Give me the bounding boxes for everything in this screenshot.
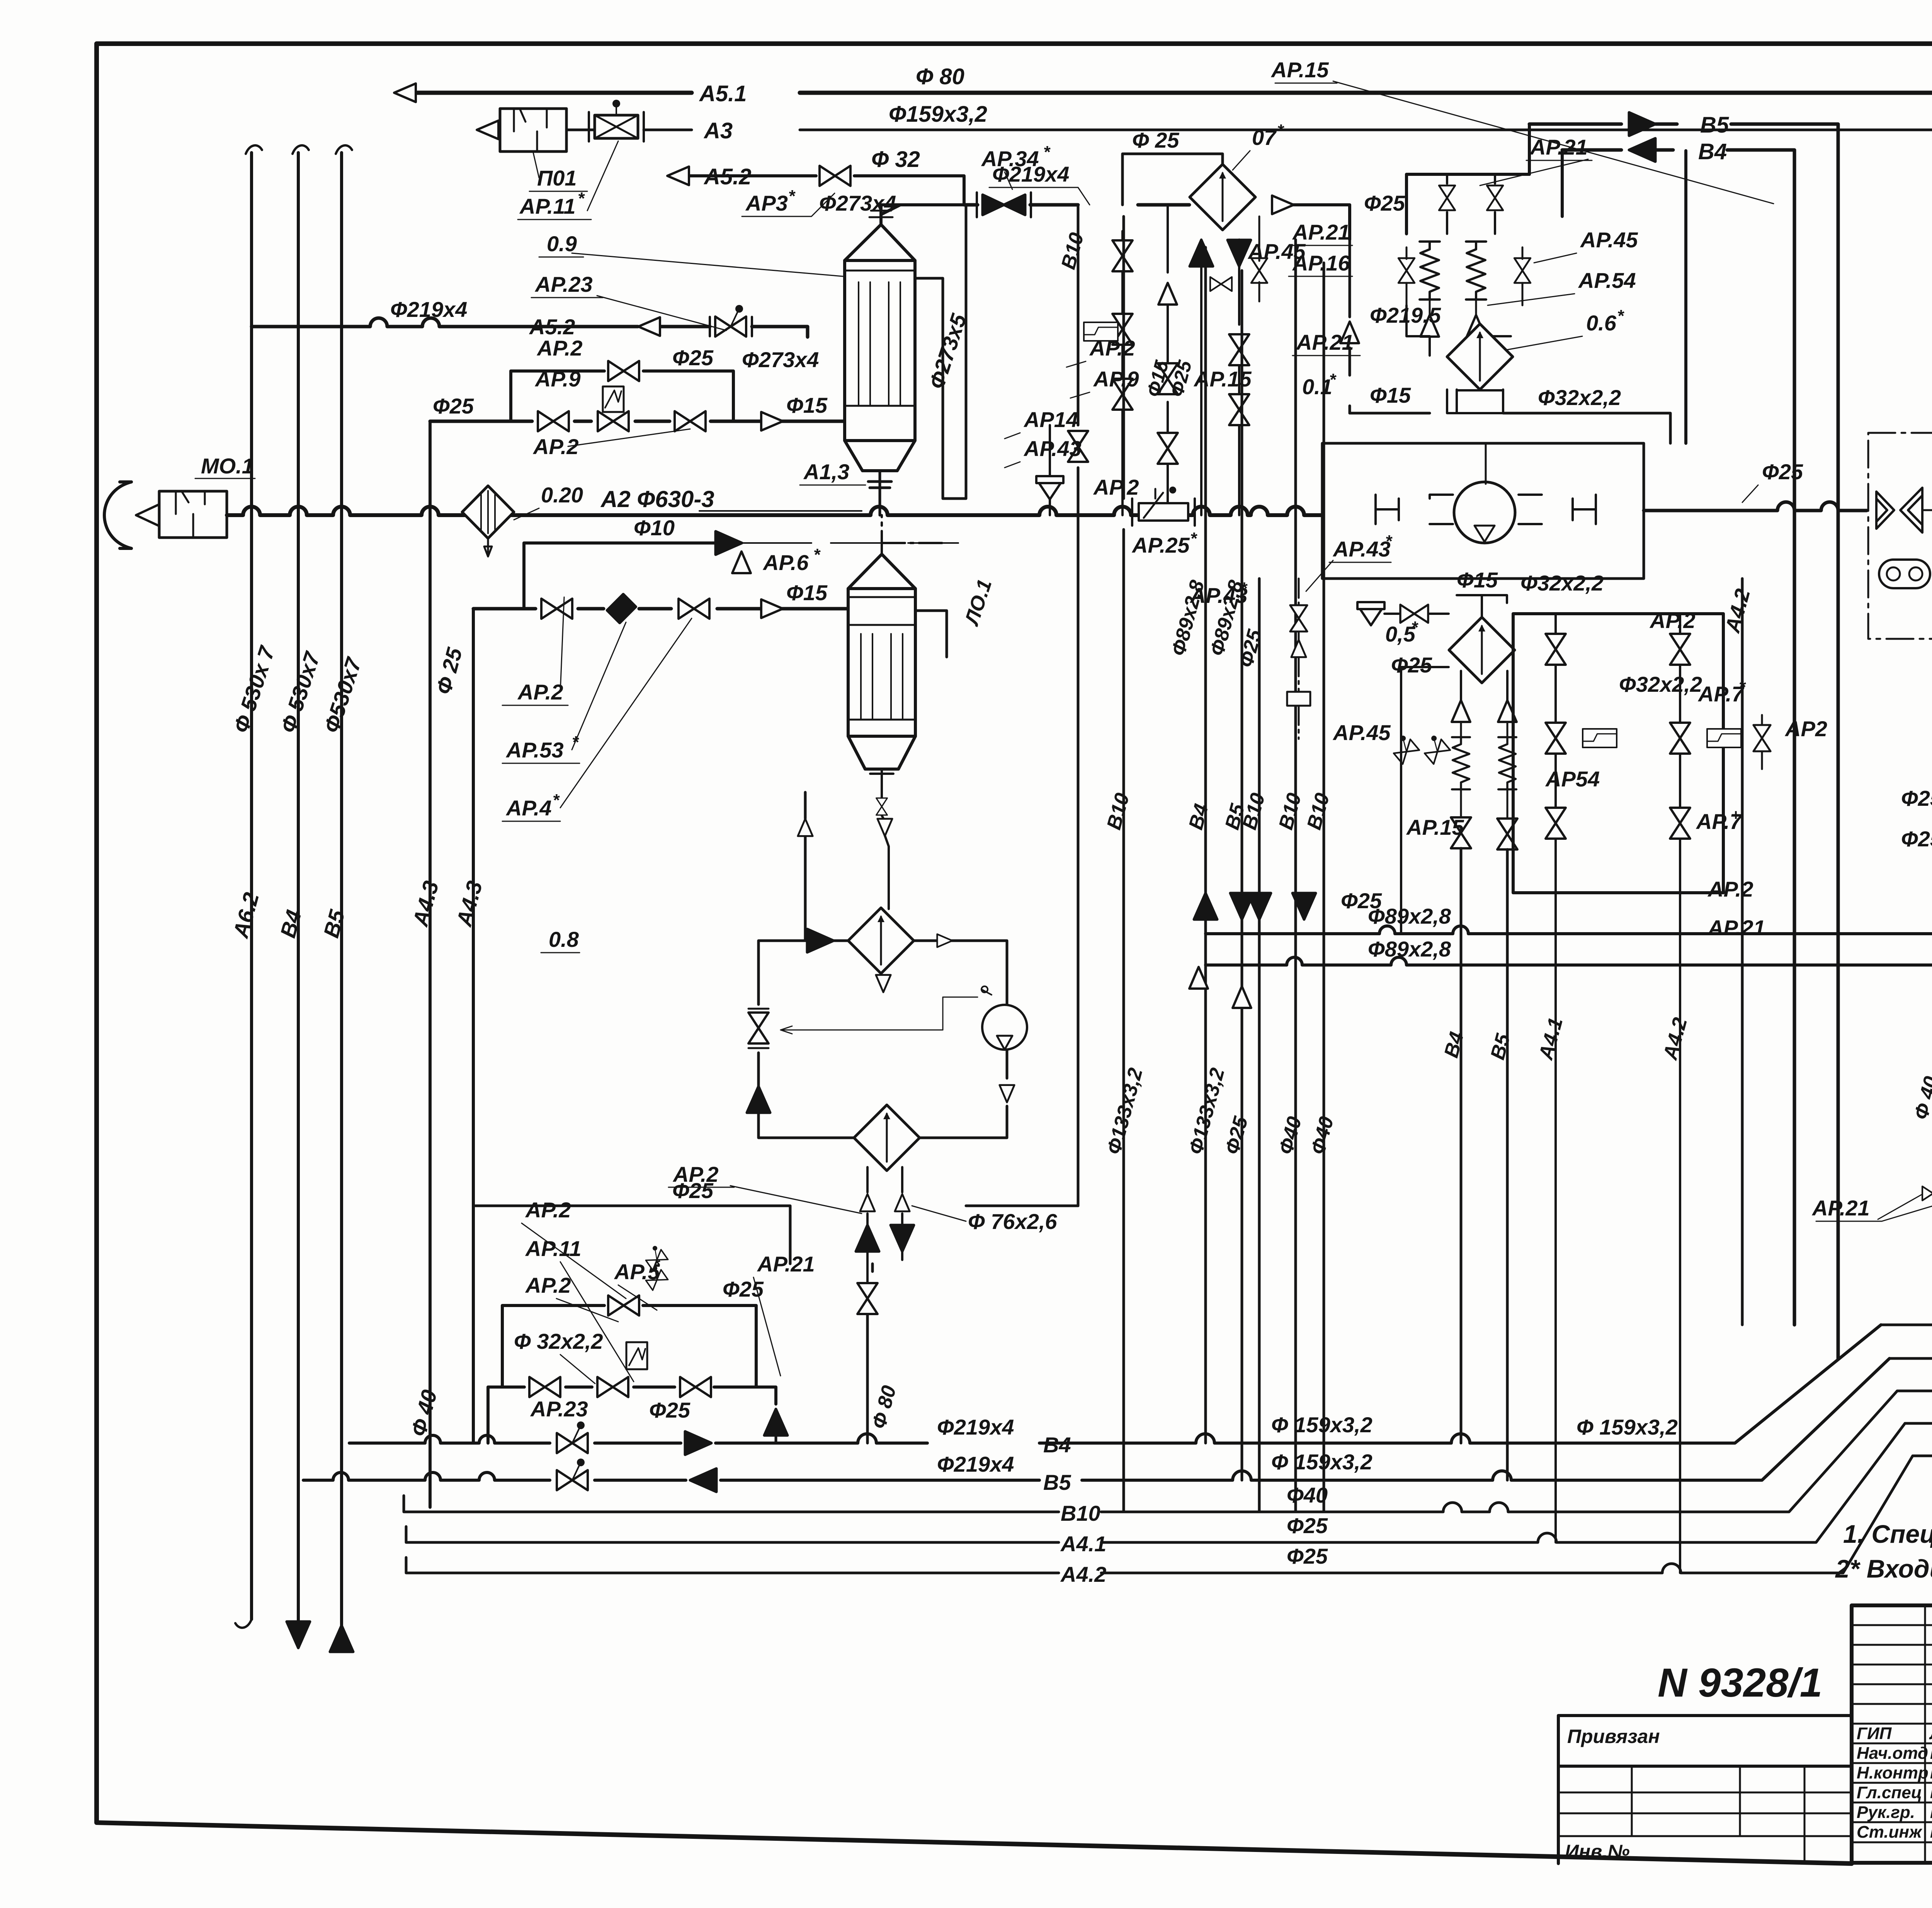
right column small valves: [1753, 725, 1770, 751]
svg-text:Гл.спец: Гл.спец: [1857, 1783, 1922, 1802]
svg-text:*: *: [788, 187, 796, 206]
spring safety bank: [1406, 124, 1529, 234]
svg-text:АР.53: АР.53: [505, 738, 564, 762]
filter MO.1 box: [159, 491, 227, 538]
manifold line 2 to vessel 0.8: [473, 607, 848, 611]
filter 0.20 diamond: [462, 486, 514, 538]
signature rows: [1857, 1724, 1932, 1842]
line A1.2 from vessel 0.9 top: [881, 205, 964, 225]
svg-text:Ф25: Ф25: [672, 1178, 714, 1203]
B10 vertical from A1.2: [1077, 205, 1080, 1206]
signature table grid: [1852, 1605, 1932, 1863]
svg-text:АР.21: АР.21: [1707, 916, 1765, 940]
bypass line F25 upper: [511, 371, 733, 421]
svg-text:АР.6: АР.6: [762, 550, 809, 575]
heat exchanger 0.6: [1447, 324, 1513, 390]
svg-text:АР.16: АР.16: [1292, 251, 1350, 275]
svg-text:Ф15: Ф15: [786, 580, 828, 605]
svg-text:Ф 80: Ф 80: [916, 64, 964, 89]
svg-text:Ф 159х3,2: Ф 159х3,2: [1271, 1450, 1372, 1474]
svg-text:Ф219х4: Ф219х4: [937, 1452, 1014, 1476]
svg-text:АР.43: АР.43: [1189, 583, 1248, 608]
svg-text:Григорьян: Григорьян: [1930, 1803, 1932, 1822]
AP.43 dash-dot line: [1298, 579, 1300, 739]
vessel 0.9 right side pipe: [915, 205, 966, 499]
svg-text:АР.54: АР.54: [1578, 268, 1636, 293]
privyazan box: [1558, 1716, 1850, 1864]
small AP.5 valves: [642, 1264, 668, 1290]
0.5 outlet legs: [1461, 671, 1507, 702]
black valve AP.34: [983, 195, 1025, 215]
air dryer vessel 0.8: [848, 554, 915, 769]
svg-text:АР.2: АР.2: [1089, 336, 1135, 360]
AP.43 funnel separator: [1036, 476, 1063, 499]
heat exchanger 0.5 diamond: [1449, 617, 1515, 683]
svg-text:+: +: [1731, 807, 1740, 824]
label stack P01 AP.11 0.9 AP.23: [519, 166, 593, 296]
bottom line A4.1: [406, 1423, 1905, 1542]
svg-text:Н.контр: Н.контр: [1857, 1763, 1929, 1782]
svg-text:АР.2: АР.2: [517, 680, 563, 704]
svg-text:АР.43: АР.43: [1023, 436, 1082, 461]
svg-text:АР.2: АР.2: [1093, 475, 1139, 499]
actuator box valve left: [1084, 322, 1118, 341]
svg-text:А5.1: А5.1: [699, 81, 747, 106]
svg-text:0.6: 0.6: [1586, 311, 1617, 335]
valve: [675, 411, 706, 431]
svg-text:Преснов: Преснов: [1930, 1783, 1932, 1802]
blower circle: [982, 1005, 1027, 1050]
svg-text:В4: В4: [1698, 139, 1727, 164]
svg-text:Ф219х4: Ф219х4: [992, 162, 1069, 186]
main air line A2: [227, 507, 1322, 515]
black triangles pair: [1190, 240, 1213, 266]
svg-text:0.9: 0.9: [547, 231, 577, 256]
labels AP group: [505, 680, 579, 951]
labels left of center: [1023, 336, 1252, 461]
loop valve: [748, 1013, 769, 1043]
svg-text:АР.11: АР.11: [525, 1236, 581, 1261]
svg-text:АР54: АР54: [1545, 767, 1600, 791]
F89x2.8 headers: [1206, 926, 1932, 934]
svg-text:Ф273х4: Ф273х4: [742, 347, 819, 372]
svg-text:Ф15: Ф15: [786, 393, 828, 417]
A4.2 vertical right of compressor: [1741, 579, 1744, 1325]
svg-text:Ф40: Ф40: [1287, 1483, 1328, 1507]
black filter element: [607, 594, 636, 623]
title block outer: [1852, 1605, 1932, 1863]
svg-text:АР.11: АР.11: [519, 194, 575, 218]
svg-text:ГИП: ГИП: [1857, 1724, 1892, 1743]
svg-text:А5.2: А5.2: [703, 164, 752, 189]
svg-text:Ф25: Ф25: [672, 346, 714, 370]
springs AP.54 pair: [1452, 737, 1470, 790]
manifold line 1 to vessel 0.9: [430, 420, 845, 423]
drive unit box 0.2 dash-dot: [1868, 433, 1932, 639]
svg-text:Инв.№: Инв.№: [1565, 1841, 1630, 1862]
svg-text:АР.43: АР.43: [1332, 537, 1391, 561]
svg-text:Ф32х2,2: Ф32х2,2: [1538, 385, 1621, 410]
vertical feeders to bottom: [1122, 216, 1125, 1512]
AP.45 dot valves pair: [1388, 733, 1419, 764]
bottom line B5: [303, 1358, 1889, 1480]
bottom line A4.2: [406, 1456, 1913, 1573]
control valve with box: [598, 411, 629, 431]
svg-text:*: *: [1043, 143, 1051, 162]
svg-text:0.20: 0.20: [541, 483, 583, 507]
svg-text:2* Входит в комплект постав: 2* Входит в комплект поставки оборудован…: [1835, 1554, 1932, 1583]
rotated labels on feeders: [1103, 578, 1338, 1157]
svg-text:*: *: [1411, 618, 1418, 637]
crank oval: [1879, 560, 1930, 588]
svg-text:Ф219х4: Ф219х4: [390, 297, 467, 322]
svg-text:В5: В5: [1700, 112, 1729, 138]
svg-text:Ф 32х2,2: Ф 32х2,2: [514, 1329, 603, 1353]
loop black arrow: [747, 1086, 770, 1113]
manifold frame box: [1513, 614, 1723, 893]
svg-text:АР2: АР2: [1784, 717, 1827, 741]
air dryer vessel 0.9: [845, 225, 915, 471]
svg-text:Ф159х3,2: Ф159х3,2: [889, 102, 987, 127]
separator cluster 0.5 below compressor: [1357, 602, 1384, 625]
svg-text:N 9328/1: N 9328/1: [1658, 1660, 1822, 1705]
svg-text:Ф25: Ф25: [1287, 1513, 1328, 1538]
svg-text:*: *: [1617, 306, 1624, 325]
staircase band to right: [1881, 1325, 1932, 1480]
svg-text:АР.15: АР.15: [1270, 58, 1329, 82]
valve column A4.2: [1679, 614, 1681, 1573]
valve with cross box P01: [595, 115, 638, 138]
line F219x4 to dryers (A5.2): [252, 318, 638, 327]
svg-text:Ф89х2,8: Ф89х2,8: [1368, 937, 1451, 961]
svg-text:Привязан: Привязан: [1567, 1726, 1660, 1747]
svg-text:Ф 25: Ф 25: [1132, 128, 1179, 152]
cooler outlet legs: [867, 1167, 902, 1314]
bottom line B10: [404, 1391, 1897, 1512]
regeneration heater HX: [848, 908, 914, 974]
svg-text:АР.7: АР.7: [1697, 682, 1745, 706]
F25 left loop: [1401, 667, 1449, 900]
svg-text:0.1: 0.1: [1302, 374, 1332, 399]
svg-text:В5: В5: [1043, 1470, 1071, 1494]
line A5.2 with valve F32: [688, 176, 964, 205]
svg-text:АР.9: АР.9: [534, 367, 581, 391]
svg-text:А2 Ф630-3: А2 Ф630-3: [600, 486, 714, 512]
svg-text:АР.45: АР.45: [1332, 720, 1391, 745]
svg-text:Коган: Коган: [1930, 1744, 1932, 1763]
black triangles on feeders: [1194, 893, 1217, 919]
valve column 3022 F15: [1167, 205, 1169, 515]
svg-text:Ф 32: Ф 32: [871, 147, 920, 172]
svg-text:Ф25: Ф25: [1391, 653, 1432, 677]
line from compressor to drive box: [1644, 502, 1867, 511]
svg-text:Ф25: Ф25: [1287, 1544, 1328, 1568]
svg-text:АР3: АР3: [745, 191, 788, 215]
filter P01: [500, 109, 566, 151]
vessel 0.8 top stub to A2: [882, 515, 943, 554]
svg-text:Ст.инж: Ст.инж: [1857, 1823, 1923, 1842]
small valve AP.45 top: [1251, 258, 1267, 283]
B4 return line: [1562, 150, 1794, 1325]
svg-text:В10: В10: [1061, 1501, 1100, 1525]
labels AP.45 AP.54 0.6: [1578, 228, 1638, 335]
label stack AP.21 AP.16: [1292, 220, 1354, 354]
arrow on A5.2 line: [638, 317, 660, 336]
svg-text:Ф219.5: Ф219.5: [1370, 303, 1441, 327]
svg-text:Ф15: Ф15: [1457, 568, 1498, 592]
valves AP.15: [1451, 817, 1471, 848]
intake strainer triangle: [136, 504, 159, 526]
svg-text:0.8: 0.8: [549, 927, 579, 951]
mini manifold verticals: [1229, 334, 1249, 365]
svg-text:Ф219х4: Ф219х4: [937, 1415, 1014, 1439]
labels: [1406, 608, 1827, 940]
svg-text:Ф25: Ф25: [723, 1277, 764, 1301]
svg-text:Шась: Шась: [1930, 1823, 1932, 1842]
svg-text:Ф 159х3,2: Ф 159х3,2: [1271, 1413, 1372, 1437]
vertical drop to AP.23 cluster: [867, 1264, 872, 1443]
regeneration loop rectangle: [759, 941, 1007, 1138]
svg-text:*: *: [813, 545, 821, 564]
left vertical pipe B5: [340, 153, 343, 1629]
svg-text:А5.2: А5.2: [529, 315, 575, 339]
top line A5.1 F80: [406, 91, 1932, 95]
svg-text:Ф25: Ф25: [433, 394, 474, 418]
svg-text:Ф25: Ф25: [1901, 786, 1932, 810]
svg-text:1. Спецификацию оборудования: 1. Спецификацию оборудования и арматуры …: [1843, 1520, 1932, 1548]
compressor circle: [1454, 482, 1515, 543]
valve: [679, 599, 709, 619]
valve AP.2 second: [541, 599, 572, 619]
svg-text:АР.2: АР.2: [525, 1198, 571, 1222]
loop feed arrow: [807, 929, 833, 952]
svg-text:АР.2: АР.2: [525, 1273, 571, 1297]
gear triangles: [1876, 488, 1932, 601]
left vertical pipe A6.2: [250, 153, 253, 1619]
svg-text:*: *: [1277, 121, 1284, 140]
svg-text:Ф25: Ф25: [1364, 191, 1405, 215]
B5 return line: [1529, 124, 1838, 1358]
left vertical pipe B4: [297, 153, 300, 1623]
svg-text:АР.4: АР.4: [505, 796, 552, 820]
piston brackets: [1376, 495, 1453, 524]
svg-text:АР.9: АР.9: [1093, 367, 1139, 391]
valve column 2905: [1112, 240, 1133, 271]
svg-text:*: *: [1329, 370, 1337, 389]
svg-text:АР.21: АР.21: [1529, 135, 1588, 159]
vessel 0.8 right pipe: [915, 611, 947, 657]
F32x2.2 line below 0.6: [1447, 390, 1503, 413]
vessel 0.8 bottom piping: [882, 779, 889, 909]
svg-text:П01: П01: [537, 166, 577, 190]
svg-text:АР.23: АР.23: [530, 1397, 588, 1421]
F25 bypass top: [1122, 154, 1223, 205]
bottom line B4: [349, 1325, 1881, 1443]
svg-text:Ф25: Ф25: [649, 1398, 690, 1422]
svg-text:АР.2: АР.2: [532, 434, 579, 459]
svg-text:Нач.отд: Нач.отд: [1857, 1744, 1928, 1763]
return riser to dryer: [798, 819, 813, 836]
svg-text:АР.2: АР.2: [1707, 877, 1753, 901]
valve column A4.1: [1554, 614, 1557, 1542]
svg-text:*: *: [553, 791, 560, 810]
svg-text:АР.45: АР.45: [1580, 228, 1638, 252]
svg-text:А4.1: А4.1: [1060, 1532, 1106, 1556]
svg-text:АР.21: АР.21: [1811, 1196, 1870, 1220]
line F10 with arrow AP.6: [524, 543, 717, 607]
svg-text:АР.21: АР.21: [1292, 220, 1350, 244]
svg-text:АР.23: АР.23: [534, 272, 593, 296]
svg-text:Ф25: Ф25: [1901, 827, 1932, 851]
heat exchanger 07 on A1.2 line: [1190, 164, 1255, 230]
intake bell mouth: [104, 482, 131, 548]
svg-text:АР.15: АР.15: [1406, 815, 1464, 839]
valve AP.9: [608, 361, 639, 381]
valve AP.23 with dot: [715, 305, 746, 337]
svg-text:АР.25: АР.25: [1131, 533, 1190, 557]
svg-text:*: *: [1385, 532, 1393, 551]
svg-text:Ф273х4: Ф273х4: [819, 191, 896, 215]
svg-text:Ф89х2,8: Ф89х2,8: [1368, 904, 1451, 928]
small horizontal valve: [1210, 277, 1232, 291]
svg-text:АР.21: АР.21: [757, 1252, 815, 1276]
regeneration cooler HX: [854, 1105, 920, 1171]
svg-text:В4: В4: [1043, 1433, 1071, 1457]
feeder bottom labels: [1440, 1015, 1692, 1063]
svg-text:07: 07: [1252, 125, 1277, 150]
arrow and F15: [761, 412, 783, 431]
svg-text:А1,3: А1,3: [803, 460, 849, 484]
svg-text:Новицкая: Новицкая: [1930, 1763, 1932, 1782]
svg-text:МО.1: МО.1: [201, 454, 254, 478]
svg-text:*: *: [1240, 579, 1248, 598]
svg-text:АР.2: АР.2: [536, 336, 583, 360]
valve AP.2: [538, 411, 569, 431]
AP.23 bypass cluster bottom left: [502, 1305, 756, 1387]
svg-text:Ф 159х3,2: Ф 159х3,2: [1577, 1415, 1678, 1439]
B5 drop vertical: [1684, 151, 1687, 443]
springs AP.45 AP.54: [1420, 242, 1440, 300]
svg-text:Ф 76х2,6: Ф 76х2,6: [968, 1209, 1057, 1234]
svg-text:АР14: АР14: [1023, 407, 1078, 432]
svg-text:Ф10: Ф10: [634, 516, 675, 540]
pipe size labels F530x7: [228, 642, 487, 1439]
svg-text:А4.2: А4.2: [1060, 1562, 1106, 1586]
svg-text:*: *: [1190, 529, 1197, 548]
top line A3 F159x3.2: [644, 129, 1932, 131]
svg-text:А3: А3: [703, 118, 733, 143]
svg-text:Ф25: Ф25: [1762, 460, 1803, 484]
compressor package box 0.1: [1322, 443, 1644, 579]
F25 down line right: [1349, 240, 1351, 413]
svg-text:Рук.гр.: Рук.гр.: [1857, 1803, 1915, 1822]
svg-text:Ф15: Ф15: [1370, 383, 1411, 407]
svg-text:Ф32х2,2: Ф32х2,2: [1520, 571, 1604, 595]
AP.25 regulator on main line: [1139, 503, 1188, 521]
svg-text:АР.2: АР.2: [1649, 608, 1696, 633]
svg-text:Ф32х2,2: Ф32х2,2: [1619, 672, 1702, 696]
